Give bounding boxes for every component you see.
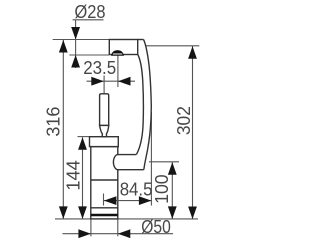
dimension text Ø28 [75,2,106,22]
arrow Ø28 up at spout underside plane [71,55,80,68]
svg-text:144: 144 [64,160,84,191]
spout boss [113,155,143,170]
body section line upper [91,179,118,181]
dimension text 84.5 [120,180,153,200]
arrow 84.5 right [139,196,152,205]
svg-text:302: 302 [174,106,194,135]
arrow 144 bottom [78,206,87,219]
arrow 23.5 left [91,77,104,86]
leader shoulder for Ø28 [73,19,104,21]
body flange thick line [91,214,118,217]
svg-text:Ø50: Ø50 [141,217,171,237]
arrow 302 bottom [188,207,197,220]
body section line lower [91,207,118,209]
extension line aerator axis for 23.5 [117,56,119,88]
dimension line 302 [192,46,194,219]
svg-text:100: 100 [152,174,172,204]
arrow 100 top [168,162,177,175]
arrow 302 top [188,46,197,59]
dimension line 144 [82,137,84,219]
extension line top plane [53,39,110,41]
extension line spout underside [69,54,109,56]
dimension line 23.5 [87,80,136,82]
arrow 316 top [59,40,68,53]
arrow 100 bottom [168,206,177,219]
arrow 23.5 right [118,77,131,86]
deck reference line [55,218,198,220]
dimension text 302 [174,106,194,135]
extension line base right for Ø50 [117,219,119,236]
faucet body column [91,147,118,219]
svg-text:Ø28: Ø28 [75,2,106,22]
spout head [109,40,137,55]
extension line cap top for 144 [78,136,90,138]
extension line outlet height [149,161,179,163]
leader vertical for Ø28 [75,20,77,68]
arrow 144 top [78,137,87,150]
dimension line 84.5 [104,200,152,202]
dimension text 100 [152,174,172,204]
dimension text 144 [64,160,84,191]
aerator [111,50,124,56]
cartridge cap [90,137,119,147]
handle stem [100,94,109,126]
extension line base left for Ø50 [90,219,92,236]
arrow Ø50 right [118,229,131,238]
spout inner curve [137,55,144,155]
extension stub axis for 84.5 [103,194,105,206]
dimension text 23.5 [83,58,116,78]
dimension line Ø50 [63,233,174,235]
dimension text Ø50 [141,217,171,237]
svg-text:23.5: 23.5 [83,58,116,78]
extension line spout tangent vertical [150,112,152,206]
dimension text 316 [43,107,63,137]
arrow Ø50 left [78,229,91,238]
arrow 84.5 left [104,196,117,205]
svg-text:316: 316 [43,107,63,137]
spout outer curve [144,40,152,170]
dimension line 100 [171,162,173,219]
arrow 316 bottom [59,206,68,219]
dimension line 316 [62,40,64,219]
arrow Ø28 down at top plane [71,27,80,40]
extension line faucet axis for 23.5 [103,76,105,94]
handle bell taper [100,125,109,136]
extension line spout top for 302 [146,45,199,47]
spout head top shoulder [138,39,144,41]
svg-text:84.5: 84.5 [120,180,153,200]
